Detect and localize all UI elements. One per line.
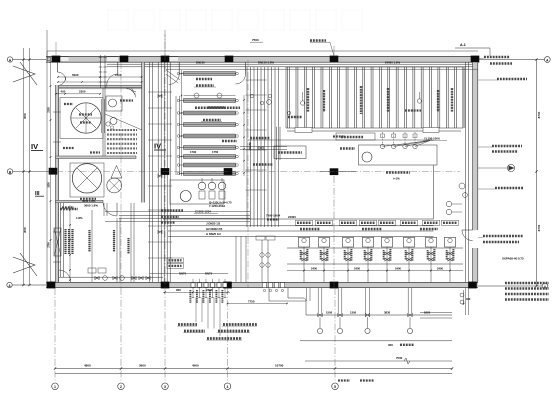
dim line y82 corridor	[58, 81, 142, 83]
drain risers	[317, 288, 319, 313]
small filter circle near T1 upper	[109, 99, 117, 107]
grid line to right bubble bottom	[478, 285, 542, 287]
tank2 label	[80, 198, 96, 200]
pump return header	[287, 263, 463, 265]
gap box below bank 2	[423, 128, 439, 133]
pipes vertical bottom-left room	[60, 203, 62, 277]
bank label vertical 1	[307, 88, 309, 112]
drain line y315	[306, 314, 452, 316]
hx label 3	[203, 119, 221, 121]
diagonal leader from tank to wall	[105, 114, 142, 130]
grid axis B dash-dot	[56, 171, 460, 173]
column bottom x227.5	[223, 282, 232, 289]
bench pump circle	[362, 152, 372, 162]
svg-text:J DN25 1/2: J DN25 1/2	[206, 222, 221, 226]
hall second line y226	[168, 225, 434, 227]
column top x165	[161, 56, 170, 63]
door swing at x169	[178, 62, 180, 74]
vertical dim line bottom-left room	[69, 205, 71, 280]
svg-text:24000 1.8%: 24000 1.8%	[385, 60, 400, 64]
svg-text:3: 3	[164, 385, 166, 389]
hall top line y219	[163, 218, 434, 220]
pump dim line y270.5	[287, 270, 463, 272]
door swing at x236	[245, 62, 247, 74]
tank T2 inner cross	[77, 168, 97, 188]
label below strainer	[253, 163, 273, 165]
svg-text:2300: 2300	[79, 90, 86, 94]
room vertical pipes x131 x134	[130, 203, 132, 282]
bank bottom line	[287, 130, 461, 132]
hx to bank connectors	[240, 146, 287, 148]
right wall risers below wall	[465, 288, 467, 315]
equipment bank outline	[286, 66, 463, 68]
column middle row x228	[224, 168, 233, 175]
rack bottom labels	[161, 216, 179, 218]
trench line y341	[300, 340, 452, 342]
svg-text:1300: 1300	[350, 311, 357, 315]
tank room pipes vertical x101-104	[101, 99, 103, 133]
wall horizontal y86 right segment	[106, 85, 142, 87]
tank T2 enclosure	[70, 163, 104, 197]
column top x475	[471, 56, 480, 63]
svg-text:24000: 24000	[288, 215, 296, 219]
riser flange ticks	[99, 57, 102, 59]
bench outline	[359, 145, 438, 165]
right annotation 4	[492, 145, 522, 148]
hx label 1	[196, 84, 214, 86]
svg-text:3000 1.8%: 3000 1.8%	[84, 204, 98, 208]
room vertical pipes x117 x120	[116, 218, 118, 282]
right annotation 2	[490, 62, 512, 65]
right annotation 1	[484, 56, 510, 59]
bank gauge circle 1	[301, 101, 305, 105]
canopy line above top wall	[47, 50, 478, 52]
wall bottom band	[46, 282, 478, 287]
extra circles near T1	[106, 122, 110, 126]
pipe line y231	[168, 230, 434, 232]
svg-text:5000: 5000	[72, 73, 79, 77]
svg-text:2700: 2700	[47, 242, 50, 248]
svg-text:10700: 10700	[275, 363, 284, 367]
column top x56	[52, 56, 61, 63]
column bottom x472.5	[468, 282, 477, 289]
label above strainer	[250, 137, 270, 139]
dim line y292 left	[163, 291, 230, 293]
svg-text:900: 900	[176, 288, 181, 292]
floor drain circle x320	[317, 328, 322, 333]
svg-text:8700: 8700	[537, 224, 541, 231]
svg-text:i=1%: i=1%	[393, 177, 400, 181]
pipe line y236	[168, 235, 434, 237]
hall right line x433	[433, 165, 435, 219]
column bottom x51	[47, 282, 56, 289]
wall vertical x104 tank room	[102, 88, 104, 156]
grid line bottom stub left	[12, 284, 46, 286]
left dimension chain line 1	[23, 48, 25, 285]
grid line A top	[13, 59, 46, 61]
bank label vertical 2	[360, 86, 362, 114]
pipes down to boxes x264-282	[261, 240, 263, 282]
svg-text:1: 1	[54, 385, 56, 389]
hall center label	[386, 171, 410, 174]
hx unit label mid	[222, 140, 237, 142]
grid line to right bubble top	[478, 59, 544, 61]
svg-text:2400: 2400	[311, 266, 317, 270]
softener labels	[161, 209, 183, 212]
right annotation 8	[483, 241, 519, 244]
left dimension ticks	[22, 58, 24, 60]
grid bubbles bottom	[52, 383, 59, 390]
hx label 2	[208, 106, 224, 108]
faint watermark top	[108, 10, 128, 30]
grid bubble A left bottom	[7, 282, 12, 287]
bench lower left label	[333, 135, 345, 137]
column bottom x165	[161, 282, 170, 289]
corridor rack extra lines	[149, 62, 151, 282]
drain branch risers	[306, 288, 308, 301]
hall scattered label 3	[420, 228, 438, 230]
svg-text:1500: 1500	[326, 311, 333, 315]
plate heat exchanger bars	[184, 72, 236, 76]
grid centerline x165	[164, 30, 166, 288]
door at y202 x103-117	[116, 203, 118, 216]
wall horizontal y86 tank room top	[59, 85, 144, 87]
grid bubble B left middle	[7, 169, 12, 174]
svg-text:2400: 2400	[206, 288, 213, 292]
tank room downpipes	[103, 203, 105, 216]
grid bubble right top	[544, 57, 550, 63]
wall horizontal y201.5 below tank room2	[56, 200, 103, 202]
svg-text:2: 2	[120, 385, 122, 389]
bundle valve circles	[250, 94, 254, 98]
svg-text:1790: 1790	[190, 150, 197, 154]
pump unit 1	[299, 237, 310, 247]
svg-text:1500: 1500	[115, 73, 122, 77]
small filter circle near T1 lower	[110, 118, 117, 125]
right annotation 3	[497, 78, 527, 81]
label above equipment box	[120, 99, 133, 101]
pipe rack vertical bundle	[157, 62, 159, 282]
svg-text:800: 800	[23, 113, 27, 118]
softener enclosure	[170, 180, 224, 204]
steam header label	[310, 39, 326, 42]
pump unit 3	[343, 237, 354, 247]
dim 7750 below wall	[228, 303, 288, 305]
column middle row x334	[330, 168, 339, 175]
bank extra vertical labels	[323, 90, 325, 112]
room vertical pipe x92	[91, 210, 93, 282]
centerline x121 in plan	[120, 62, 122, 288]
right wall valve circles	[459, 183, 465, 189]
riser pipes pair x100	[100, 55, 102, 88]
pipes from hall lines to wall	[235, 236, 237, 282]
tick boxes row x195-224	[191, 283, 195, 287]
grid bubble A left top	[7, 57, 12, 62]
grid drop centerlines bottom	[54, 288, 56, 383]
bundle valve circle	[267, 100, 272, 105]
door swing right wall	[462, 229, 473, 231]
bottom small labels pair near x340	[338, 379, 350, 381]
svg-text:IV: IV	[154, 142, 161, 151]
bank horizontal label	[405, 109, 421, 111]
right legend block	[505, 282, 549, 285]
svg-text:G DN25 1/2: G DN25 1/2	[206, 232, 221, 236]
wall horizontal y157 between tank rooms	[56, 156, 136, 159]
hall scattered label 2	[362, 228, 382, 230]
hx long label	[195, 107, 240, 110]
breeching boxes row x264-282	[262, 283, 266, 288]
column top x229	[225, 56, 234, 63]
svg-text:4: 4	[227, 385, 229, 389]
pipe line y69	[166, 68, 478, 70]
pipe line y273.5 tank room	[150, 273, 228, 275]
left break symbol top	[13, 66, 35, 82]
tank2 room text row	[62, 206, 74, 208]
labels above x262 pipes	[256, 236, 265, 240]
second bottom line y373.4	[55, 372, 452, 374]
door leaf+swing at x118	[117, 62, 119, 74]
left wall opening ticks	[53, 111, 61, 113]
line y361 with break	[305, 360, 452, 362]
svg-text:3600 1.8%: 3600 1.8%	[82, 199, 96, 203]
wall top band	[46, 56, 478, 62]
drain branch line y301	[269, 300, 306, 302]
bank downcomers	[276, 127, 278, 160]
centerline x248	[247, 60, 249, 288]
right annotation 7 hot water	[483, 235, 523, 238]
storage room box below bank	[336, 133, 375, 140]
line below tank room wall	[59, 88, 142, 90]
svg-text:Q=125L/h N=0.75: Q=125L/h N=0.75	[209, 200, 232, 204]
right annotation 5	[492, 150, 518, 153]
floor drain circle x340	[337, 328, 342, 333]
window tick rect left of column1	[47, 57, 50, 60]
right wall riser pair	[465, 62, 467, 282]
svg-text:2100: 2100	[47, 107, 50, 113]
strainer valve	[259, 146, 263, 149]
left inner vertical line x47	[46, 30, 48, 285]
rack tie ticks	[148, 91, 172, 93]
bench small circles	[380, 144, 384, 148]
wall left band	[56, 85, 59, 283]
column top x334	[330, 56, 339, 63]
grid line B stub	[13, 171, 52, 173]
svg-text:2400: 2400	[437, 266, 443, 270]
right exterior dim line	[536, 60, 538, 287]
bottom annotation labels	[178, 323, 197, 326]
svg-text:4500: 4500	[192, 363, 199, 367]
svg-text:DN100: DN100	[196, 60, 205, 64]
svg-text:7750: 7750	[248, 299, 255, 303]
svg-text:400: 400	[61, 90, 66, 94]
boxed labels G2 DN50 pair	[167, 258, 184, 263]
svg-text:3600: 3600	[139, 363, 146, 367]
svg-text:DN150: DN150	[249, 142, 252, 150]
svg-text:5: 5	[334, 385, 336, 389]
elbow pipe bottom left of drain	[288, 288, 306, 315]
svg-text:2400: 2400	[354, 266, 360, 270]
svg-text:XXPA08-40-0.75: XXPA08-40-0.75	[502, 257, 524, 261]
small meter box y270	[88, 268, 96, 273]
bench fan leader lines	[383, 141, 431, 147]
bank left unit label	[288, 116, 302, 118]
dosing pumps	[198, 182, 206, 190]
corner hatch lines near x124 door	[122, 86, 136, 92]
grid centerline x334 vertical	[333, 176, 335, 288]
svg-text:1.8%: 1.8%	[76, 216, 83, 220]
duct rect on left wall	[54, 228, 61, 256]
svg-text:8700: 8700	[537, 111, 541, 118]
rack top diagonal leaders	[166, 70, 180, 80]
pump unit 4	[363, 237, 374, 247]
strainer box in hall	[274, 146, 306, 159]
gauge circles right wall	[446, 201, 452, 207]
pump unit 2	[319, 237, 330, 247]
pump unit 7	[426, 237, 437, 247]
svg-text:G2 DN32 2/5: G2 DN32 2/5	[206, 227, 223, 231]
hx area dim vertical	[243, 95, 245, 176]
door swing bottom-left corner	[58, 270, 60, 282]
svg-text:300: 300	[388, 343, 393, 347]
floor drain circle x410	[407, 328, 412, 333]
extra horizontal pipes y211 y221	[105, 211, 250, 213]
drain line y318 right part	[420, 317, 452, 319]
pump suction header	[287, 247, 463, 249]
column top x124	[120, 56, 129, 63]
text stack bottom-left room vertical columns	[64, 229, 66, 254]
door leaf+swing at x57	[56, 62, 58, 72]
right stub dim below wall corner	[463, 290, 465, 304]
column middle row x53	[49, 168, 58, 175]
svg-text:7500: 7500	[396, 356, 403, 360]
pipe horizontal y215 pair	[119, 214, 250, 216]
pump unit 5	[382, 237, 393, 247]
svg-text:800: 800	[23, 227, 27, 232]
svg-text:3830: 3830	[384, 311, 391, 315]
bench left label	[340, 147, 355, 149]
dimension line y94 in tank room	[56, 93, 100, 95]
left inner dim line x50.5	[50, 62, 52, 282]
tank T1 inner labels	[79, 113, 92, 115]
svg-text:7500: 7500	[252, 38, 259, 42]
bottom annotation leaders	[195, 298, 197, 323]
right pump symbol	[507, 164, 514, 171]
wall vertical x143 corridor	[142, 62, 145, 202]
small pump circle T2 side	[107, 178, 122, 193]
left room small labels	[60, 208, 78, 210]
svg-text:YL100-100A: YL100-100A	[424, 137, 440, 141]
svg-text:DN150 2.8%: DN150 2.8%	[258, 60, 274, 64]
tank T2 circle	[72, 164, 101, 193]
column stub lines above wall	[164, 34, 166, 56]
rack valve marks	[158, 95, 162, 98]
label 1# unit	[196, 78, 212, 80]
pump unit 6	[404, 237, 415, 247]
hall scattered label 1	[300, 228, 320, 230]
column middle row x165	[161, 168, 170, 175]
pump unit 8	[445, 237, 456, 247]
bank gauge circle 3	[287, 111, 291, 115]
drain branch elbow down	[268, 288, 270, 301]
svg-text:A-1: A-1	[460, 43, 466, 47]
left dimension chain line 2	[29, 48, 31, 285]
door opening gaps in top wall	[60, 57, 69, 62]
equipment box right of T1	[106, 96, 122, 111]
svg-text:2620: 2620	[424, 311, 431, 315]
funnel triangle	[111, 166, 122, 179]
bank label vertical 3	[451, 88, 453, 112]
svg-text:4800: 4800	[84, 363, 91, 367]
steam main pipe upper	[107, 63, 478, 65]
wall right band lower	[473, 248, 478, 283]
svg-text:1750: 1750	[212, 150, 219, 154]
gap box below bank 1	[295, 128, 312, 133]
column bottom x334	[330, 282, 339, 289]
wall right band upper	[473, 62, 478, 230]
valve row above bottom wall	[59, 276, 163, 278]
right annotation 6	[495, 187, 523, 190]
hx circles row y95	[194, 93, 199, 98]
bundle cross ticks	[246, 79, 267, 81]
rect around tank T1	[60, 98, 103, 139]
hx left dim line	[181, 70, 183, 176]
svg-text:2400: 2400	[395, 266, 401, 270]
floor drain circle x367.5	[365, 328, 370, 333]
softener big pump circle	[180, 191, 191, 202]
bank gauge circle 2	[417, 99, 421, 103]
left break symbol bottom	[13, 257, 35, 273]
tank room small texts	[64, 103, 73, 105]
heat exchanger inlet pipes	[175, 96, 177, 175]
steam main pipe lower	[107, 66, 478, 68]
grid segment y171 at column	[320, 171, 356, 173]
central riser bundle	[246, 67, 248, 227]
svg-text:IV: IV	[31, 142, 38, 151]
tank T1 inner cross	[76, 108, 96, 128]
tank T1 circle	[71, 103, 101, 133]
main dimension line y368.6	[55, 368, 452, 370]
riser pipe stripes group	[287, 67, 289, 128]
equipment schedule text block right of tank	[107, 129, 137, 131]
drain line y312 right part	[420, 311, 452, 313]
grid bubble right bottom	[542, 283, 548, 289]
dim line y77 corridor	[58, 76, 142, 78]
svg-text:1800: 1800	[47, 182, 50, 188]
line y140 below bank	[248, 139, 434, 141]
